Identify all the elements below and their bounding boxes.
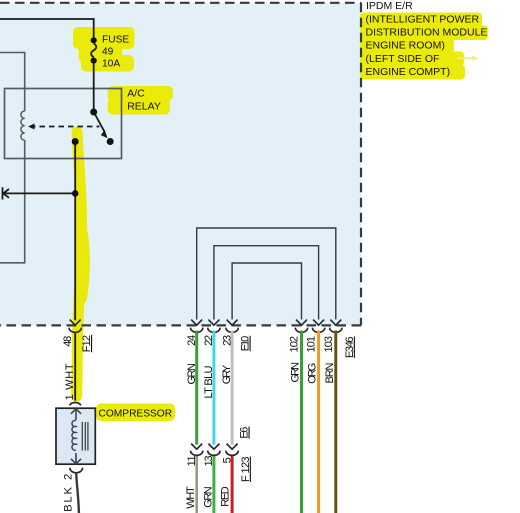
svg-text:102: 102 <box>289 336 301 353</box>
svg-text:101: 101 <box>306 336 318 353</box>
svg-text:24: 24 <box>186 335 198 346</box>
svg-text:BLK 2: BLK 2 <box>62 474 74 512</box>
svg-text:E346: E346 <box>344 336 356 358</box>
svg-text:GRN: GRN <box>186 363 198 385</box>
svg-text:48: 48 <box>62 336 74 347</box>
svg-text:E6: E6 <box>239 427 251 439</box>
svg-text:E10: E10 <box>240 336 252 352</box>
svg-text:(LEFT SIDE OF: (LEFT SIDE OF <box>366 53 440 65</box>
svg-text:IPDM E/R: IPDM E/R <box>366 0 413 12</box>
svg-text:WHT: WHT <box>185 486 197 509</box>
svg-text:DISTRIBUTION MODULE: DISTRIBUTION MODULE <box>366 27 488 39</box>
svg-text:GRY: GRY <box>221 364 233 384</box>
svg-text:5: 5 <box>221 457 233 463</box>
svg-text:A/C: A/C <box>127 88 145 100</box>
svg-text:ENGINE ROOM): ENGINE ROOM) <box>366 40 445 52</box>
svg-text:GRN: GRN <box>202 486 214 508</box>
svg-text:BRN: BRN <box>324 362 336 383</box>
svg-text:ENGINE COMPT): ENGINE COMPT) <box>366 66 451 78</box>
svg-text:FUSE: FUSE <box>102 35 129 46</box>
svg-text:GRN: GRN <box>290 362 302 383</box>
svg-text:1 WHT: 1 WHT <box>64 363 76 400</box>
svg-text:13: 13 <box>203 455 215 466</box>
svg-text:LT BLU: LT BLU <box>203 365 215 398</box>
svg-text:RELAY: RELAY <box>127 101 161 113</box>
svg-text:ORG: ORG <box>307 363 319 384</box>
svg-text:11: 11 <box>186 455 198 466</box>
svg-text:23: 23 <box>221 335 233 346</box>
svg-text:10A: 10A <box>102 58 120 69</box>
svg-text:F12: F12 <box>81 335 93 352</box>
svg-text:F 123: F 123 <box>240 456 252 482</box>
svg-text:RED: RED <box>220 486 232 507</box>
svg-text:COMPRESSOR: COMPRESSOR <box>99 409 173 420</box>
svg-text:22: 22 <box>203 335 215 346</box>
svg-text:(INTELLIGENT POWER: (INTELLIGENT POWER <box>366 13 480 25</box>
svg-text:103: 103 <box>323 336 335 353</box>
svg-text:49: 49 <box>102 47 114 58</box>
